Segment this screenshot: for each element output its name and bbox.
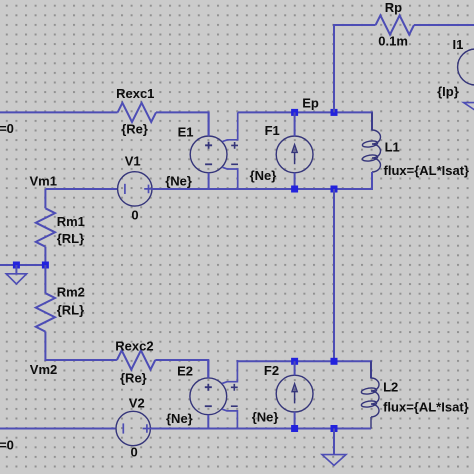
svg-text:E2: E2 — [177, 363, 193, 378]
junction Ep at F1 top — [291, 109, 298, 116]
svg-text:E1: E1 — [178, 125, 194, 140]
junction secondary bottom rail x334 — [331, 425, 338, 432]
op-amp-like VCVS E2 — [190, 360, 238, 429]
junction F2 bottom — [291, 425, 298, 432]
ground left — [6, 274, 26, 284]
wire mid rail to left edge — [0, 264, 45, 266]
resistor Rp — [376, 15, 414, 34]
svg-text:{Ne}: {Ne} — [165, 174, 192, 189]
svg-text:Vm1: Vm1 — [30, 174, 57, 189]
svg-text:L1: L1 — [385, 140, 400, 155]
resistor Rm1 — [36, 208, 55, 246]
svg-text:Ep: Ep — [302, 96, 319, 111]
voltage source V2 — [116, 411, 151, 445]
svg-text:{Ne}: {Ne} — [166, 411, 193, 426]
wire input net to Rexc1 — [0, 111, 118, 113]
svg-text:I1: I1 — [453, 37, 464, 52]
svg-text:V2: V2 — [129, 396, 145, 411]
svg-text:{Ne}: {Ne} — [252, 410, 279, 425]
svg-text:V1: V1 — [125, 153, 141, 168]
svg-text:Rexc1: Rexc1 — [116, 86, 154, 101]
junction F1 bottom — [291, 186, 298, 193]
svg-text:L2: L2 — [383, 380, 398, 395]
svg-text:0: 0 — [131, 445, 138, 460]
ground bottom — [322, 455, 346, 466]
wire Rexc2 to E2 top — [155, 360, 208, 378]
junction top rail to Rp column — [331, 109, 338, 116]
junction ground tap — [13, 262, 20, 269]
wire Rexc1 to E1 top — [156, 112, 209, 136]
junction secondary top rail x334 — [331, 358, 338, 365]
wire top rail Ep — [238, 112, 372, 130]
svg-text:F1: F1 — [265, 123, 280, 138]
svg-text:F2: F2 — [264, 363, 279, 378]
wire mid rail to Rm2 — [44, 265, 46, 293]
svg-text:Rm2: Rm2 — [57, 285, 85, 300]
voltage source V1 — [118, 172, 153, 206]
wire V2 feed from left edge — [0, 428, 115, 430]
svg-text:Rp: Rp — [385, 0, 402, 15]
svg-text:{Ip}: {Ip} — [437, 84, 459, 99]
svg-text:Vm2: Vm2 — [30, 362, 57, 377]
svg-text:0: 0 — [131, 207, 138, 222]
wire Vm1 corner to V1 — [45, 189, 117, 208]
svg-text:flux={AL*Isat}: flux={AL*Isat} — [383, 400, 469, 415]
svg-text:=0: =0 — [0, 121, 14, 136]
current source F2 — [276, 361, 313, 428]
svg-text:=0: =0 — [0, 437, 14, 452]
wire Rm1 to mid rail — [44, 247, 46, 265]
current source F1 — [276, 112, 313, 189]
wire top rail secondary — [238, 361, 371, 378]
svg-text:{RL}: {RL} — [57, 231, 84, 246]
svg-text:Rm1: Rm1 — [57, 214, 85, 229]
wire Rp to I1 — [414, 24, 474, 26]
svg-text:0.1m: 0.1m — [378, 34, 408, 49]
junction F2 top — [291, 358, 298, 365]
ground under I1 — [464, 103, 474, 111]
svg-text:flux={AL*Isat}: flux={AL*Isat} — [384, 163, 470, 178]
svg-text:{Re}: {Re} — [120, 371, 147, 386]
wire Rm2 to Vm2 — [45, 332, 117, 360]
current source I1 (partially visible) — [458, 49, 474, 103]
inductor L2 — [361, 361, 379, 428]
inductor L1 — [362, 112, 381, 189]
resistor Rexc1 — [118, 103, 156, 122]
wire long vertical x334 — [333, 189, 335, 361]
svg-text:{Re}: {Re} — [121, 121, 148, 136]
svg-text:{Ne}: {Ne} — [250, 168, 277, 183]
resistor Rexc2 — [117, 350, 155, 369]
junction mid rail Rm column — [42, 262, 49, 269]
junction bottom rail to long vertical — [331, 186, 338, 193]
wire bottom rail secondary — [151, 428, 371, 430]
wire Rp column vertical — [334, 25, 376, 112]
wire ground stub secondary — [333, 429, 335, 455]
wire ground stub — [15, 265, 17, 274]
op-amp-like VCVS E1 — [190, 112, 238, 189]
svg-text:{RL}: {RL} — [57, 302, 84, 317]
resistor Rm2 — [36, 293, 55, 331]
svg-text:Rexc2: Rexc2 — [115, 339, 153, 354]
wire bottom rail primary — [153, 172, 372, 189]
